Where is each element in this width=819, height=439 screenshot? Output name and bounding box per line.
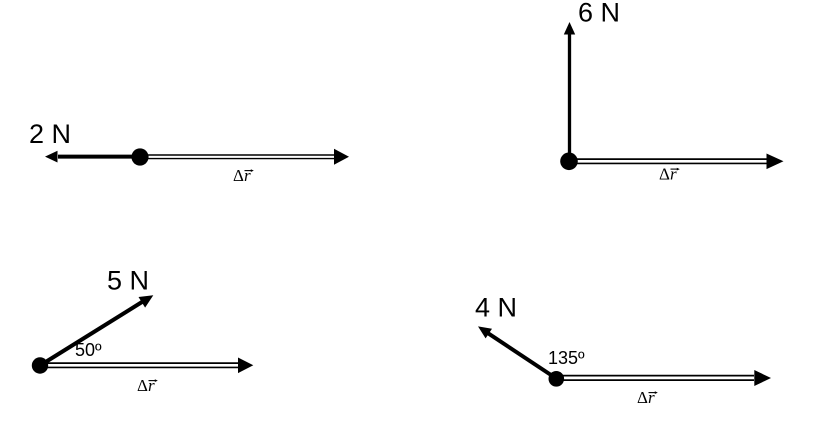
label 2 N [29, 119, 71, 149]
svg-text:135º: 135º [548, 348, 585, 368]
label delta-r TR [659, 165, 680, 184]
particle dot TL [131, 148, 148, 165]
label 5 N [107, 265, 149, 295]
svg-text:Δr: Δr [637, 388, 655, 407]
particle dot BL [32, 357, 48, 373]
particle dot TR [560, 153, 578, 171]
displacement arrow TR shaft white core [569, 160, 767, 163]
svg-text:4 N: 4 N [475, 292, 517, 322]
force arrow F=5N head [139, 295, 154, 307]
displacement arrow TL shaft white core [140, 156, 334, 158]
force arrow F=2N shaft [58, 155, 140, 159]
displacement arrow TR head [767, 154, 784, 170]
force arrow F=6N shaft [568, 34, 571, 161]
displacement arrow BR head [754, 370, 771, 386]
svg-text:Δr: Δr [233, 166, 251, 185]
force arrow F=4N head [478, 326, 492, 338]
force arrow F=4N shaft [488, 333, 556, 378]
displacement arrow TL head [334, 149, 349, 165]
label 6 N [578, 0, 620, 28]
label delta-r TL [233, 166, 254, 185]
svg-text:6 N: 6 N [578, 0, 620, 28]
force arrow F=5N shaft [40, 302, 142, 366]
displacement arrow BL shaft white core [40, 364, 239, 367]
svg-text:50º: 50º [75, 340, 102, 360]
label 4 N [475, 292, 517, 322]
angle label 135 degrees [548, 348, 585, 368]
label delta-r BL [137, 376, 158, 395]
displacement arrow BL shaft outer [40, 362, 239, 368]
displacement arrow BR shaft white core [556, 377, 754, 380]
displacement arrow BR shaft outer [556, 375, 754, 381]
svg-text:Δr: Δr [659, 165, 677, 184]
svg-text:5 N: 5 N [107, 265, 149, 295]
displacement arrow TL shaft outer [140, 154, 334, 159]
svg-text:2 N: 2 N [29, 119, 71, 149]
displacement arrow BL head [238, 358, 253, 374]
svg-text:Δr: Δr [137, 376, 155, 395]
particle dot BR [549, 371, 565, 387]
force arrow F=2N head [45, 151, 58, 163]
displacement arrow TR shaft outer [569, 158, 767, 164]
label delta-r BR [637, 388, 658, 407]
angle label 50 degrees [75, 340, 102, 360]
force arrow F=6N head [564, 22, 575, 35]
